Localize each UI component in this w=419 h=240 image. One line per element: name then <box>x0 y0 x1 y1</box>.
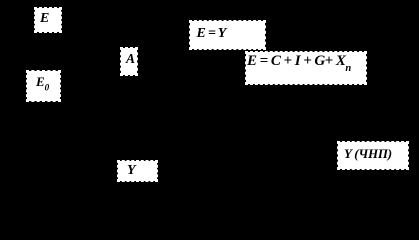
label box E = Y (45-degree line label) <box>190 21 265 49</box>
label box Y (equilibrium output) <box>118 161 157 181</box>
label box Y (ЧНП) (horizontal axis label, net national product) <box>338 142 408 169</box>
label box E (vertical axis label) <box>35 8 61 32</box>
label box A (equilibrium point A) <box>121 48 137 75</box>
label box E = C + I + G + Xn (aggregate expenditure curve label) <box>246 52 366 84</box>
label box E0 (equilibrium expenditure level) <box>27 71 60 101</box>
